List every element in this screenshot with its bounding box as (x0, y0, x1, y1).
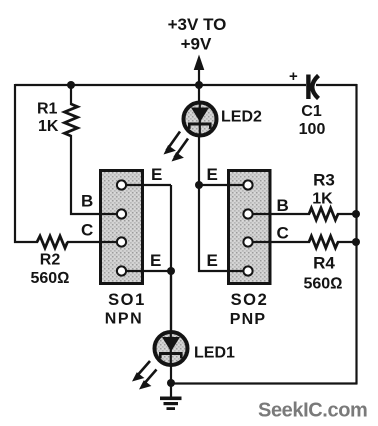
svg-text:+3V TO: +3V TO (168, 15, 227, 34)
svg-text:E: E (151, 165, 162, 184)
node: emitter junction SO2 (195, 181, 203, 189)
node: SO1 emitter junction (167, 267, 175, 275)
svg-text:1K: 1K (312, 191, 333, 208)
socket SO1 (101, 171, 143, 284)
wire top rail (15, 84, 306, 86)
svg-text:E: E (150, 251, 161, 270)
svg-text:100: 100 (299, 121, 326, 138)
label SO2 PNP (230, 291, 269, 328)
wire SO1 emitter column (170, 185, 172, 332)
label R4 value (304, 254, 343, 293)
resistor R3 (309, 208, 338, 220)
wire SO1 pin 4 lead (122, 270, 172, 272)
svg-text:B: B (81, 192, 93, 211)
wire LED1 to ground (170, 364, 172, 397)
svg-text:C: C (277, 224, 289, 243)
svg-text:LED2: LED2 (221, 109, 262, 126)
resistor R4 (309, 236, 338, 248)
LED2 emission arrows (164, 132, 189, 162)
wire SO1 pin 1 lead (122, 184, 172, 186)
svg-text:C: C (81, 221, 93, 240)
wire R3 to right rail (337, 213, 356, 215)
wire left rail to R2 (14, 241, 38, 243)
svg-text:+: + (289, 68, 298, 85)
wire emitter node down to SO2 pin 4 (199, 185, 248, 271)
resistor R1 (65, 104, 78, 136)
svg-text:PNP: PNP (230, 311, 267, 328)
wire top rail right of C1 (316, 84, 357, 86)
svg-text:R2: R2 (40, 252, 61, 269)
svg-text:SO2: SO2 (231, 291, 269, 309)
svg-text:E: E (207, 251, 218, 270)
svg-text:SO1: SO1 (108, 291, 146, 309)
wire power to LED2 (198, 85, 200, 104)
wire LED2 to emitter node (198, 135, 200, 186)
socket SO2 pins (243, 180, 252, 275)
svg-text:+9V: +9V (181, 35, 212, 54)
svg-text:R4: R4 (313, 254, 335, 273)
wire R1 top lead (70, 85, 72, 105)
label R1 value (37, 101, 59, 136)
LED1 emission arrows (132, 361, 157, 390)
svg-text:E: E (207, 165, 218, 184)
node: ground junction (167, 379, 175, 387)
svg-text:C1: C1 (301, 103, 322, 120)
svg-text:R3: R3 (313, 171, 335, 190)
wire left rail (14, 84, 16, 243)
wire R4 to right rail (337, 241, 356, 243)
wire right rail (355, 84, 357, 385)
node: R1 top junction (67, 81, 75, 89)
node: R4 right junction (352, 238, 360, 246)
wire R1 bottom lead to SO1 base pin (71, 135, 122, 214)
ground (160, 397, 182, 411)
svg-text:LED1: LED1 (194, 345, 235, 362)
LED1 (155, 332, 188, 365)
svg-text:SeekIC.com: SeekIC.com (258, 400, 367, 422)
svg-text:560Ω: 560Ω (304, 276, 343, 293)
svg-text:B: B (277, 196, 289, 215)
socket SO1 pins (117, 180, 126, 275)
wire SO2 base pin lead (248, 213, 310, 215)
svg-text:NPN: NPN (105, 311, 144, 328)
socket SO2 (229, 171, 271, 284)
wire R2 to SO1 collector pin (67, 241, 122, 243)
wire SO1 emitter to LED1 (170, 271, 172, 333)
label SO1 NPN (105, 291, 146, 328)
svg-text:R1: R1 (37, 101, 58, 118)
wire emitter node to SO2 pin 1 (199, 184, 248, 186)
label C1 value (299, 103, 326, 138)
svg-text:1K: 1K (38, 118, 59, 135)
label R3 value (312, 171, 335, 208)
node: R3 right junction (352, 210, 360, 218)
node: supply junction (195, 81, 203, 89)
supply arrow (194, 55, 205, 85)
label R2 value (31, 252, 70, 288)
svg-text:560Ω: 560Ω (31, 270, 70, 287)
wire SO2 collector pin lead (248, 241, 310, 243)
label supply +3V TO +9V (168, 15, 227, 54)
resistor R2 (37, 236, 68, 248)
wire bottom rail (171, 382, 357, 384)
LED2 (184, 103, 217, 136)
capacitor C1 (289, 68, 319, 99)
